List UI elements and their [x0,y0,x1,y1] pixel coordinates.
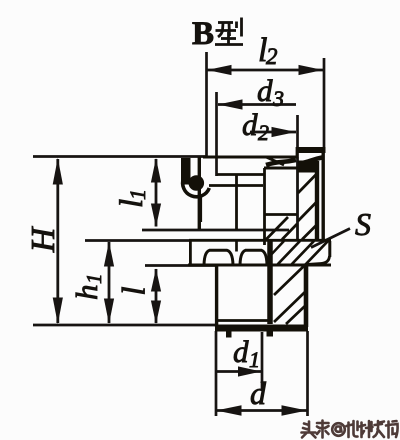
hatch counterbore 1 [266,217,288,240]
wire d left extension line [215,331,218,416]
svg-text:d: d [250,375,267,411]
dimension d3 line with left arrow [218,103,296,106]
svg-text:d: d [233,334,249,369]
hatch hex 3 [305,241,328,265]
dimension d2 line with right arrow [250,131,296,134]
dimension d line with arrows [217,409,307,412]
body groove wavy line [266,158,322,166]
body bore lower line left [209,184,263,187]
svg-text:1: 1 [125,189,150,200]
wire d2 right extension line [296,115,299,157]
svg-text:1: 1 [249,347,260,372]
watermark toutiao logo text [302,421,398,438]
wire bottom extension line (H datum) [33,324,216,327]
hex left wall [189,241,192,265]
svg-text:2: 2 [258,120,269,145]
svg-text:S: S [355,206,371,242]
svg-text:h: h [69,285,104,301]
hatch stem 3 [286,305,306,324]
stem bottom edge [215,325,308,332]
hatch stem 2 [274,291,306,322]
ball stub [199,196,203,222]
thread boundary line [217,319,271,322]
dimension H line with arrows [56,159,59,323]
hatch hex 1 [277,241,300,265]
stem right wall [304,264,309,327]
hex top line [189,239,331,242]
dimension d1 line with right arrow [216,370,261,373]
wire l2 right extension line [323,58,326,148]
ball cup arc [183,178,210,197]
dimension l1 line with arrows [155,159,158,227]
hatch stem 1 [274,264,306,295]
body rim step vertical [296,147,299,158]
hatch hex 0 [268,241,284,258]
body head groove wall [315,161,319,240]
bore vertical thick [267,241,273,324]
hatch hex 2 [291,241,314,265]
hex face corner [235,241,238,252]
label h1 rotated [69,274,106,301]
undercut corner [306,256,330,265]
wire l top extension line [145,264,216,267]
svg-text:d: d [257,73,273,108]
body head inner bore wall right [296,157,299,241]
svg-text:H: H [25,225,62,253]
body cap left wall [198,157,201,229]
hatch head band 1 [298,174,317,193]
hatch head band 2 [298,202,317,221]
svg-text:B: B [192,16,214,52]
wire h1 top extension line [85,239,190,242]
hex right wall [328,241,331,257]
svg-text:3: 3 [272,86,284,111]
thread stub right [267,331,274,337]
svg-text:1: 1 [82,274,106,285]
dimension h1 line with arrows [108,242,111,323]
svg-text:2: 2 [266,44,278,69]
label l1 rotated [114,189,150,208]
label CJK xing (type) drawn glyph [215,18,243,45]
stem left wall [215,265,218,327]
dimension l2 line with arrows [207,69,323,72]
wire d right extension line [306,331,309,416]
body head right outer wall [322,147,325,240]
body nozzle rim bar [181,158,191,185]
thread stub left [226,331,232,338]
body bore vertical wall [263,168,266,245]
wire l2 left extension line [205,52,208,156]
hex chamfer arch 1 [204,250,233,265]
body groove section ink blob [298,161,318,173]
body bore top line right [264,167,302,170]
hatch head band 3 [302,225,317,240]
hatch counterbore 2 [282,224,297,240]
svg-text:l: l [117,286,153,295]
leader line S [311,229,350,248]
body bore upper line left [217,173,264,176]
body seat bore left wall [235,175,238,230]
wire d3 left extension line [215,92,218,176]
body head top rim band [296,147,326,153]
body head top surface [203,156,298,159]
body counterbore bottom line [264,213,297,216]
ball check [189,175,205,191]
hex bottom line [188,264,331,267]
dimension l line with arrows [155,269,158,323]
svg-text:d: d [242,107,258,142]
wire l1 bottom extension / seat shoulder line [142,229,289,232]
hex chamfer arch 2 [240,250,267,265]
wire d1 right extension line [261,332,264,389]
wire top extension line (H / l1 datum) [33,155,207,158]
body chamfer diagonal [266,157,284,165]
